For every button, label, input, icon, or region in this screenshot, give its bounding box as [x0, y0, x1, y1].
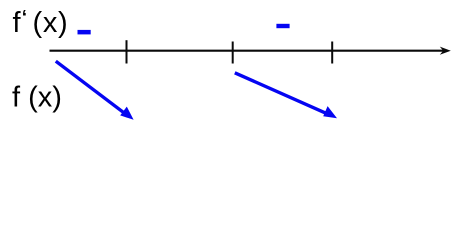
svg-text:f: f: [13, 7, 22, 39]
svg-text:f (x): f (x): [12, 82, 62, 114]
svg-text:(x): (x): [33, 7, 69, 39]
svg-text:‘: ‘: [22, 8, 27, 29]
